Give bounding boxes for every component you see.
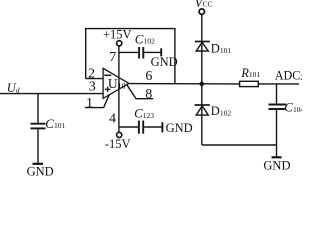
svg-text:6: 6 (145, 69, 152, 84)
ground bar C123 (161, 122, 163, 132)
svg-text:U10: U10 (108, 76, 126, 91)
+15V terminal circle (117, 41, 122, 46)
wire C104 to ground (276, 109, 278, 157)
svg-text:8: 8 (145, 87, 152, 102)
op-amp U10 triangle (103, 68, 129, 98)
wire Vcc vertical (201, 15, 203, 145)
-15V terminal circle (117, 132, 122, 137)
svg-text:D102: D102 (211, 104, 232, 118)
diode D102 (195, 105, 210, 115)
svg-text:R101: R101 (240, 66, 260, 80)
wire C123 branch (119, 126, 138, 128)
svg-text:GND: GND (263, 158, 290, 172)
wire C123 to ground bar (144, 126, 162, 128)
svg-text:GND: GND (166, 121, 193, 135)
junction node dot (200, 82, 205, 87)
svg-text:3: 3 (89, 80, 96, 95)
ground bar below C101 (33, 163, 44, 165)
svg-text:ADC2: ADC2 (275, 69, 302, 83)
wire pin 7 supply vertical (118, 46, 120, 131)
Vcc terminal circle (199, 9, 204, 14)
diode D101 (195, 42, 210, 52)
svg-text:C102: C102 (135, 31, 155, 46)
svg-text:-15V: -15V (105, 137, 131, 151)
svg-text:D101: D101 (211, 42, 232, 56)
wire pin 2 (86, 78, 103, 80)
svg-text:1: 1 (86, 96, 93, 111)
wire ADC2 node down to C104 (276, 84, 278, 104)
ground bar C102 (160, 48, 162, 56)
op-amp plus sign (105, 87, 111, 93)
ground bar below C104 (272, 156, 282, 158)
resistor R101 box (240, 81, 259, 86)
svg-text:GND: GND (151, 55, 178, 69)
wire C102 branch (119, 51, 138, 53)
op-amp minus sign (104, 74, 111, 76)
capacitor C123 (138, 121, 140, 134)
wire output pin 6 (129, 83, 240, 85)
svg-text:VCC: VCC (195, 0, 213, 10)
wire feedback loop rectangle (86, 29, 175, 84)
svg-text:7: 7 (109, 50, 116, 65)
wire C101 to ground (37, 129, 39, 163)
svg-text:+15V: +15V (103, 27, 132, 41)
wire resistor to ADC2 (258, 83, 299, 85)
wire pin 1 stub and diagonal (85, 94, 110, 107)
wire pin 8 stub (127, 85, 153, 99)
capacitor C104 (269, 104, 287, 106)
capacitor C102 (138, 47, 140, 59)
capacitor C101 (31, 123, 46, 125)
svg-text:GND: GND (27, 165, 54, 176)
svg-text:C123: C123 (134, 106, 154, 121)
wire input Ud to pin 3 (0, 93, 103, 95)
svg-text:C101: C101 (45, 116, 65, 131)
svg-text:C104: C104 (284, 100, 302, 115)
wire D102 down and right to C104 branch (202, 144, 277, 146)
svg-text:Ud: Ud (7, 81, 20, 95)
svg-text:4: 4 (109, 112, 116, 127)
wire C101 branch vertical top (37, 94, 39, 123)
wire C102 to ground bar (144, 51, 161, 53)
